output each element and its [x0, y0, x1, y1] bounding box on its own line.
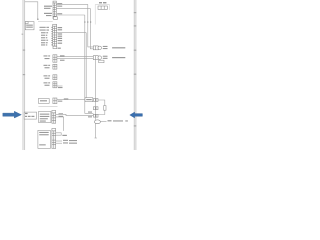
- wire group line: [38, 105, 57, 107]
- connector 2A left wire labels: [44, 6, 52, 17]
- wire from left border to junction (top): [25, 2, 38, 19]
- wire label R-Y: [60, 60, 65, 61]
- main bottom vertical wire: [95, 60, 97, 138]
- wire radio out 3: [56, 14, 85, 16]
- antenna loop wire: [96, 100, 105, 115]
- 2F elbow label: [62, 135, 67, 136]
- left page border: [23, 0, 25, 150]
- speaker 1 labels: [103, 46, 125, 49]
- connector 2A header text: [54, 2, 56, 3]
- connector 1J header label: [58, 48, 61, 49]
- connector 1J header box: [53, 46, 57, 48]
- 1N box text: [40, 100, 47, 101]
- connector pair P2: [93, 107, 98, 110]
- connector 2C right stub labels: [58, 27, 63, 44]
- wire note line: [38, 21, 53, 23]
- connector 2C ladder: [53, 24, 57, 46]
- right border tick y25: [134, 25, 137, 26]
- component box W/TRT note 2: [38, 130, 51, 148]
- wire label L-B: [57, 3, 62, 4]
- connector 1N ladder: [53, 98, 57, 104]
- bus 3 vertical: [88, 4, 94, 47]
- right border tick y74: [134, 74, 137, 75]
- off-page arrow left: [3, 111, 22, 118]
- connector 2F ladder: [52, 129, 56, 149]
- antenna wire right: [101, 120, 107, 122]
- antenna label row: [108, 120, 128, 121]
- connector 2C pin ticks: [51, 27, 52, 45]
- legend text: [26, 25, 33, 28]
- right border tick y12: [134, 12, 137, 13]
- wire label stub 1M: [58, 87, 63, 88]
- speaker 1 symbol: [98, 46, 101, 49]
- wire radio out 2: [56, 7, 90, 9]
- wire elbow down to 2F: [56, 117, 64, 131]
- connector 2C left labels: [40, 27, 50, 46]
- amplifier box text: [86, 99, 92, 100]
- connector 1L ladder: [53, 75, 57, 80]
- bus 4 vertical: [90, 8, 93, 48]
- connector pair P1: [93, 99, 98, 102]
- wire to bus from 2C: [57, 32, 86, 34]
- junction block outer box: [95, 5, 109, 25]
- connector 2B small: [53, 17, 57, 20]
- wire label near P3: [88, 112, 92, 118]
- connector 2A (top ladder): [53, 1, 56, 19]
- junction block label: [99, 2, 106, 3]
- bus pin label 4: [84, 21, 85, 22]
- connector 1N box: [38, 99, 49, 104]
- left border tick y50: [23, 50, 26, 51]
- connector 2C header text: [53, 25, 56, 26]
- speaker 2 connector: [93, 56, 98, 60]
- junction block pin box: [98, 6, 107, 9]
- component box W/TRT note 1: [39, 112, 51, 123]
- wire stub from 1M: [57, 85, 63, 87]
- wire amplifier feed: [57, 99, 85, 101]
- ground: [95, 137, 97, 139]
- speaker 2 labels: [103, 56, 125, 59]
- wire label L-Y: [60, 55, 65, 56]
- wire label W-B: [58, 101, 63, 102]
- 1K left labels: [44, 65, 51, 68]
- loop label box: [104, 106, 106, 111]
- 1J left labels: [44, 55, 51, 59]
- connector 2E ladder: [52, 111, 56, 124]
- legend note box: [25, 22, 34, 30]
- 2E stub labels: [59, 113, 64, 117]
- amplifier box: [85, 98, 93, 102]
- 1L left labels: [44, 75, 51, 78]
- wire long to relay block: [56, 114, 94, 115]
- box 1 text rows: [40, 114, 50, 122]
- connector 1M ladder: [53, 82, 57, 88]
- wire stub CAN b: [56, 142, 62, 144]
- wire radio out 1: [56, 3, 88, 5]
- arrowhead into connector: [37, 19, 38, 20]
- wire to speaker 2 b: [57, 58, 93, 60]
- bus 2 vertical: [85, 33, 87, 98]
- right page border: [134, 0, 136, 150]
- connector 1J ladder: [53, 55, 57, 62]
- box 2 text rows: [39, 132, 49, 146]
- wire to speaker 2 a: [57, 56, 93, 58]
- wire label 2B: [64, 98, 69, 99]
- bus pin label 5: [87, 21, 88, 22]
- right border tick y125: [134, 125, 137, 126]
- off-page arrow right: [130, 112, 143, 118]
- connector code box on vertical: [99, 60, 104, 63]
- node G2 reference box: [24, 112, 36, 119]
- wire elbow from 2F: [56, 133, 62, 135]
- connector 2E header text: [53, 111, 56, 112]
- connector pair P3: [93, 114, 98, 117]
- right border tick y50: [134, 50, 137, 51]
- wire stub CAN a: [56, 140, 62, 142]
- CAN stub labels: [63, 140, 77, 144]
- bus pin label 6: [90, 21, 91, 22]
- bus 1 vertical: [85, 15, 94, 113]
- left border tick y74: [23, 74, 26, 75]
- speaker 2 symbol: [98, 56, 101, 59]
- wire label A-3: [57, 6, 62, 7]
- antenna component oval: [94, 120, 100, 124]
- connector 1K ladder: [53, 64, 57, 69]
- connector 2F header text: [53, 129, 56, 130]
- wire label r3: [57, 13, 62, 14]
- speaker 1 connector: [93, 46, 98, 50]
- left border tick y34: [22, 34, 24, 35]
- 1M left labels: [44, 82, 51, 85]
